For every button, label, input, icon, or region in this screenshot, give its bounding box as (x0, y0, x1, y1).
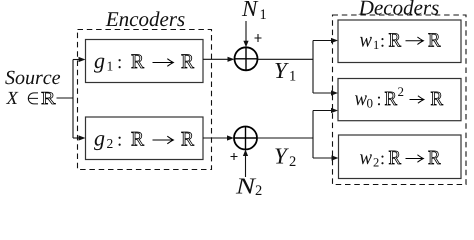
wire g2 to adder2 (203, 137, 228, 139)
element-of symbol (28, 93, 38, 104)
g1 text (94, 55, 194, 73)
encoder box g2 (86, 117, 204, 160)
wire to g2 (73, 137, 79, 139)
label Source (5, 71, 60, 84)
wire to w0 input1 (313, 92, 332, 94)
branch vertical top (312, 41, 314, 94)
adder1 (235, 47, 258, 70)
wire adder2 to branch (257, 137, 313, 139)
label N2 (236, 178, 257, 193)
wire to w0 input2 (313, 110, 332, 112)
wire from source (57, 97, 74, 99)
plus sign bottom adder (231, 153, 238, 160)
encoder box g1 (86, 40, 204, 83)
wire adder1 to branch (258, 58, 314, 60)
branch vertical bottom (312, 111, 314, 159)
label Decoders (359, 0, 439, 15)
label Y1 (275, 63, 289, 78)
wire N2 to adder2 (245, 156, 247, 178)
wire to w2 (313, 157, 332, 159)
decoder box w2 (339, 135, 462, 179)
label Encoders (106, 11, 185, 26)
decoder box w1 (338, 20, 461, 63)
wire to g1 (73, 59, 79, 61)
wire to w1 (313, 40, 332, 42)
blackboard R of X∈R (42, 92, 56, 104)
label N1 (242, 1, 259, 16)
g2 text (94, 132, 194, 150)
node X in R (6, 92, 19, 104)
decoder box w0 (338, 79, 461, 121)
wire branch vertical (72, 60, 74, 139)
plus sign top adder (255, 34, 262, 42)
adder2 (234, 127, 257, 150)
wire g1 to adder1 (203, 58, 228, 60)
dashed box Decoders (333, 15, 467, 185)
label Y2 (275, 148, 289, 163)
wire N1 to adder1 (245, 21, 247, 41)
dashed box Encoders (78, 30, 212, 170)
